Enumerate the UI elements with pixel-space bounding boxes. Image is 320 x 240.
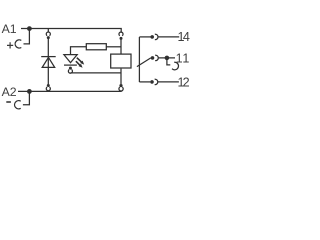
svg-text:A2: A2 bbox=[2, 85, 17, 99]
svg-text:1: 1 bbox=[182, 51, 189, 65]
svg-text:4: 4 bbox=[183, 30, 190, 44]
svg-text:2: 2 bbox=[183, 76, 190, 90]
svg-text:A1: A1 bbox=[2, 22, 17, 36]
